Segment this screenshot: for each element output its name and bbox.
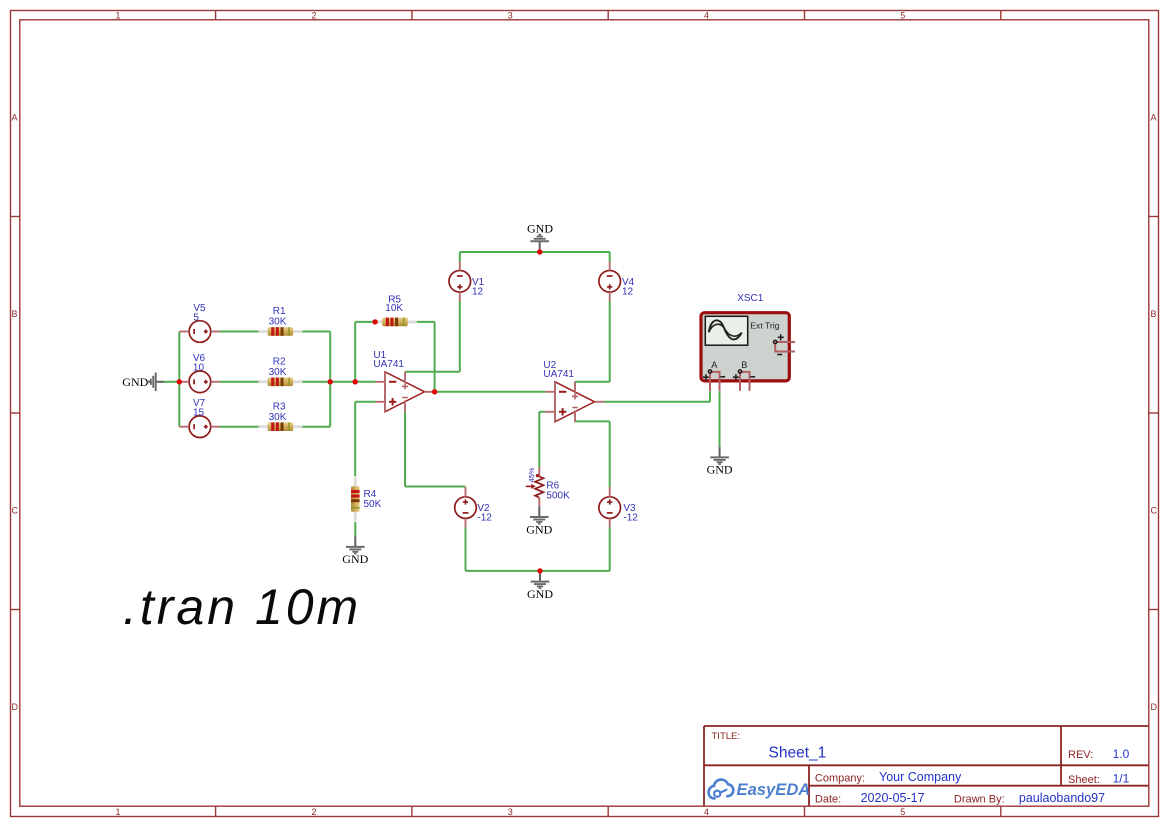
wire: feedback right vertical to U1 output	[434, 322, 436, 392]
wire: negative rail bottom horizontal	[466, 570, 610, 572]
pin V4 bottom	[609, 292, 611, 301]
svg-text:10K: 10K	[385, 303, 403, 314]
wire: R3 to summing bus	[302, 426, 330, 428]
voltage source V7	[189, 416, 211, 438]
voltage source V5	[189, 321, 211, 343]
pin XSC1 A-	[710, 372, 720, 391]
wire: V1 bottom down to U1 V+ level	[459, 301, 461, 372]
pin XSC1 Ext Trig -	[775, 342, 795, 352]
svg-text:4: 4	[704, 807, 709, 817]
svg-text:1/1: 1/1	[1113, 772, 1130, 786]
pin V6 left	[179, 381, 189, 383]
svg-text:A: A	[12, 113, 18, 123]
svg-text:EasyEDA: EasyEDA	[737, 780, 811, 799]
pin XSC1 B-	[740, 372, 750, 391]
svg-text:GND: GND	[527, 222, 553, 236]
svg-text:Date:: Date:	[815, 794, 841, 806]
wire: U2 V- vertical to V3 top	[609, 421, 611, 487]
ground GND at R6	[526, 506, 552, 536]
junction bottom negative rail GND	[537, 568, 542, 573]
svg-text:TITLE:: TITLE:	[712, 731, 741, 742]
pin XSC1 Ext Trig +	[775, 341, 795, 343]
resistor R5	[373, 318, 417, 327]
terminal dot A+	[708, 370, 711, 373]
pin U1 output	[425, 391, 435, 393]
wire: U2 V+ horizontal	[575, 381, 610, 383]
wire: U1 V+ horizontal	[405, 371, 460, 373]
wire: summing bus vertical	[329, 332, 331, 427]
pin V3 bottom	[609, 518, 611, 527]
ground GND top rail	[527, 222, 553, 253]
terminal dot Ext Trig	[774, 340, 777, 343]
svg-text:2020-05-17: 2020-05-17	[861, 791, 925, 805]
resistor R2	[259, 378, 303, 387]
svg-text:GND: GND	[527, 587, 553, 601]
wire: R2 to U1 inverting input	[302, 381, 375, 383]
svg-text:1: 1	[116, 807, 121, 817]
wire: U1 output to U2 inverting input	[435, 391, 545, 393]
wire: R5 right lead to feedback vertical	[415, 321, 435, 323]
voltage source V6	[189, 371, 211, 393]
pin U2 inverting input	[545, 391, 555, 393]
wire: V4 bottom down to U2 V+ level	[609, 301, 611, 382]
wire: V5 to R1	[219, 331, 259, 333]
svg-text:Sheet_1: Sheet_1	[769, 745, 827, 762]
wire: V1 top to GND rail	[459, 252, 461, 262]
svg-text:10: 10	[193, 363, 205, 374]
wire: top GND rail horizontal	[460, 251, 610, 253]
svg-text:30K: 30K	[269, 412, 287, 423]
pin V7 right	[211, 426, 220, 428]
ground GND bottom negative rail	[527, 571, 553, 601]
wire: U2 non-inverting down to R6	[538, 412, 540, 468]
resistor R1	[259, 327, 303, 336]
wire: left GND stub to input bus	[164, 381, 180, 383]
svg-text:2: 2	[312, 10, 317, 20]
junction summing bus at R2	[328, 379, 333, 384]
ground GND at R4	[342, 536, 368, 566]
svg-text:5: 5	[900, 807, 905, 817]
wire: V3 bottom up from rail	[609, 527, 611, 571]
pin V2 bottom	[465, 518, 467, 527]
ground GND left (rotated, net of V sources)	[122, 373, 164, 392]
voltage source V3	[599, 497, 621, 519]
junction R5 left lead	[372, 319, 377, 324]
svg-text:UA741: UA741	[373, 359, 404, 370]
svg-text:B: B	[741, 360, 747, 370]
svg-text:500K: 500K	[546, 490, 570, 501]
wire: V2 bottom down	[465, 527, 467, 571]
svg-text:Sheet:: Sheet:	[1068, 774, 1100, 786]
pin U2 output	[595, 401, 605, 403]
svg-text:B: B	[12, 309, 18, 319]
wire: R1 to summing bus	[302, 331, 330, 333]
svg-text:GND: GND	[707, 463, 733, 477]
wire: scope A- down to GND	[719, 391, 721, 447]
svg-text:-12: -12	[623, 513, 638, 524]
svg-text:30K: 30K	[269, 316, 287, 327]
voltage source V4	[599, 271, 621, 293]
potentiometer R6	[526, 467, 544, 506]
svg-text:5: 5	[193, 312, 199, 323]
wire: U2 V- horizontal	[575, 420, 610, 422]
wire: R4 bottom to GND	[354, 522, 356, 536]
wire: U1 non-inverting input horizontal	[355, 401, 375, 403]
wire: V7 to R3	[219, 426, 259, 428]
pin V4 top	[609, 262, 611, 271]
svg-text:paulaobando97: paulaobando97	[1019, 791, 1105, 805]
wire: U1 non-inverting input down to R4	[354, 402, 356, 477]
voltage source V1	[449, 271, 471, 293]
resistor R4 (vertical)	[351, 477, 360, 521]
svg-text:Drawn By:: Drawn By:	[954, 794, 1005, 806]
svg-text:4: 4	[704, 10, 709, 20]
svg-text:GND: GND	[526, 522, 552, 536]
svg-text:R3: R3	[273, 401, 286, 412]
pin U2 non-inverting input	[545, 411, 555, 413]
wire: U2 non-inverting horizontal	[539, 411, 545, 413]
svg-text:30K: 30K	[269, 367, 287, 378]
junction feedback tap at U1 input	[353, 379, 358, 384]
wire: U2 output to scope	[604, 401, 710, 403]
svg-text:15: 15	[193, 408, 205, 419]
pin V2 top	[465, 487, 467, 497]
svg-text:45%: 45%	[527, 467, 536, 482]
ground GND at scope	[707, 447, 733, 477]
svg-text:Ext Trig: Ext Trig	[750, 321, 779, 331]
pin V5 left	[179, 331, 189, 333]
svg-text:A: A	[711, 360, 718, 370]
svg-text:GND: GND	[342, 552, 368, 566]
pin U1 inverting input	[376, 381, 385, 383]
svg-text:3: 3	[508, 10, 513, 20]
svg-text:A: A	[1151, 113, 1157, 123]
wire: U1 V- vertical down	[404, 412, 406, 487]
svg-text:B: B	[1151, 309, 1157, 319]
oscilloscope XSC1	[701, 313, 789, 381]
svg-text:12: 12	[472, 287, 484, 298]
svg-text:UA741: UA741	[543, 369, 574, 380]
pin V1 bottom	[459, 292, 461, 301]
terminal dot B+	[738, 370, 741, 373]
pin V1 top	[459, 262, 461, 271]
pin U1 non-inverting input	[376, 401, 385, 403]
pin XSC1 B+	[739, 372, 741, 391]
resistor R3	[259, 422, 303, 431]
svg-text:REV:: REV:	[1068, 749, 1093, 761]
EasyEDA logo	[709, 780, 811, 799]
svg-text:XSC1: XSC1	[737, 293, 764, 304]
svg-text:D: D	[12, 702, 19, 712]
op-amp U1 UA741	[385, 372, 425, 412]
svg-text:.tran 10m: .tran 10m	[123, 579, 361, 635]
svg-text:5: 5	[900, 10, 905, 20]
wire: feedback left vertical to R5	[354, 322, 356, 382]
svg-text:1: 1	[116, 10, 121, 20]
svg-text:GND: GND	[122, 375, 148, 389]
wire: input bus vertical V5-V7	[178, 332, 180, 427]
pin V7 left	[179, 426, 189, 428]
pin XSC1 A+	[709, 372, 711, 391]
wire: scope A+ vertical	[709, 391, 711, 402]
pin V5 right	[211, 331, 220, 333]
op-amp U2 UA741	[555, 382, 595, 422]
wire: R5 left lead	[355, 321, 375, 323]
wire: V6 to R2	[219, 381, 259, 383]
pin V6 right	[211, 381, 220, 383]
svg-text:12: 12	[622, 287, 634, 298]
svg-text:C: C	[12, 506, 19, 516]
svg-text:D: D	[1151, 702, 1158, 712]
title block	[704, 726, 1149, 806]
svg-text:Your Company: Your Company	[879, 770, 962, 784]
svg-text:3: 3	[508, 807, 513, 817]
junction top GND rail	[537, 249, 542, 254]
svg-text:2: 2	[312, 807, 317, 817]
voltage source V2	[455, 497, 477, 519]
svg-text:1.0: 1.0	[1113, 747, 1130, 761]
junction U1 output node	[432, 389, 437, 394]
pin V3 top	[609, 487, 611, 497]
svg-text:-12: -12	[477, 513, 492, 524]
svg-text:Company:: Company:	[815, 773, 865, 785]
svg-text:C: C	[1151, 506, 1158, 516]
svg-text:50K: 50K	[364, 499, 382, 510]
junction input bus at V6	[177, 379, 182, 384]
wire: U1 V- horizontal to V2	[405, 486, 466, 488]
wire: V4 top to GND rail	[609, 252, 611, 262]
